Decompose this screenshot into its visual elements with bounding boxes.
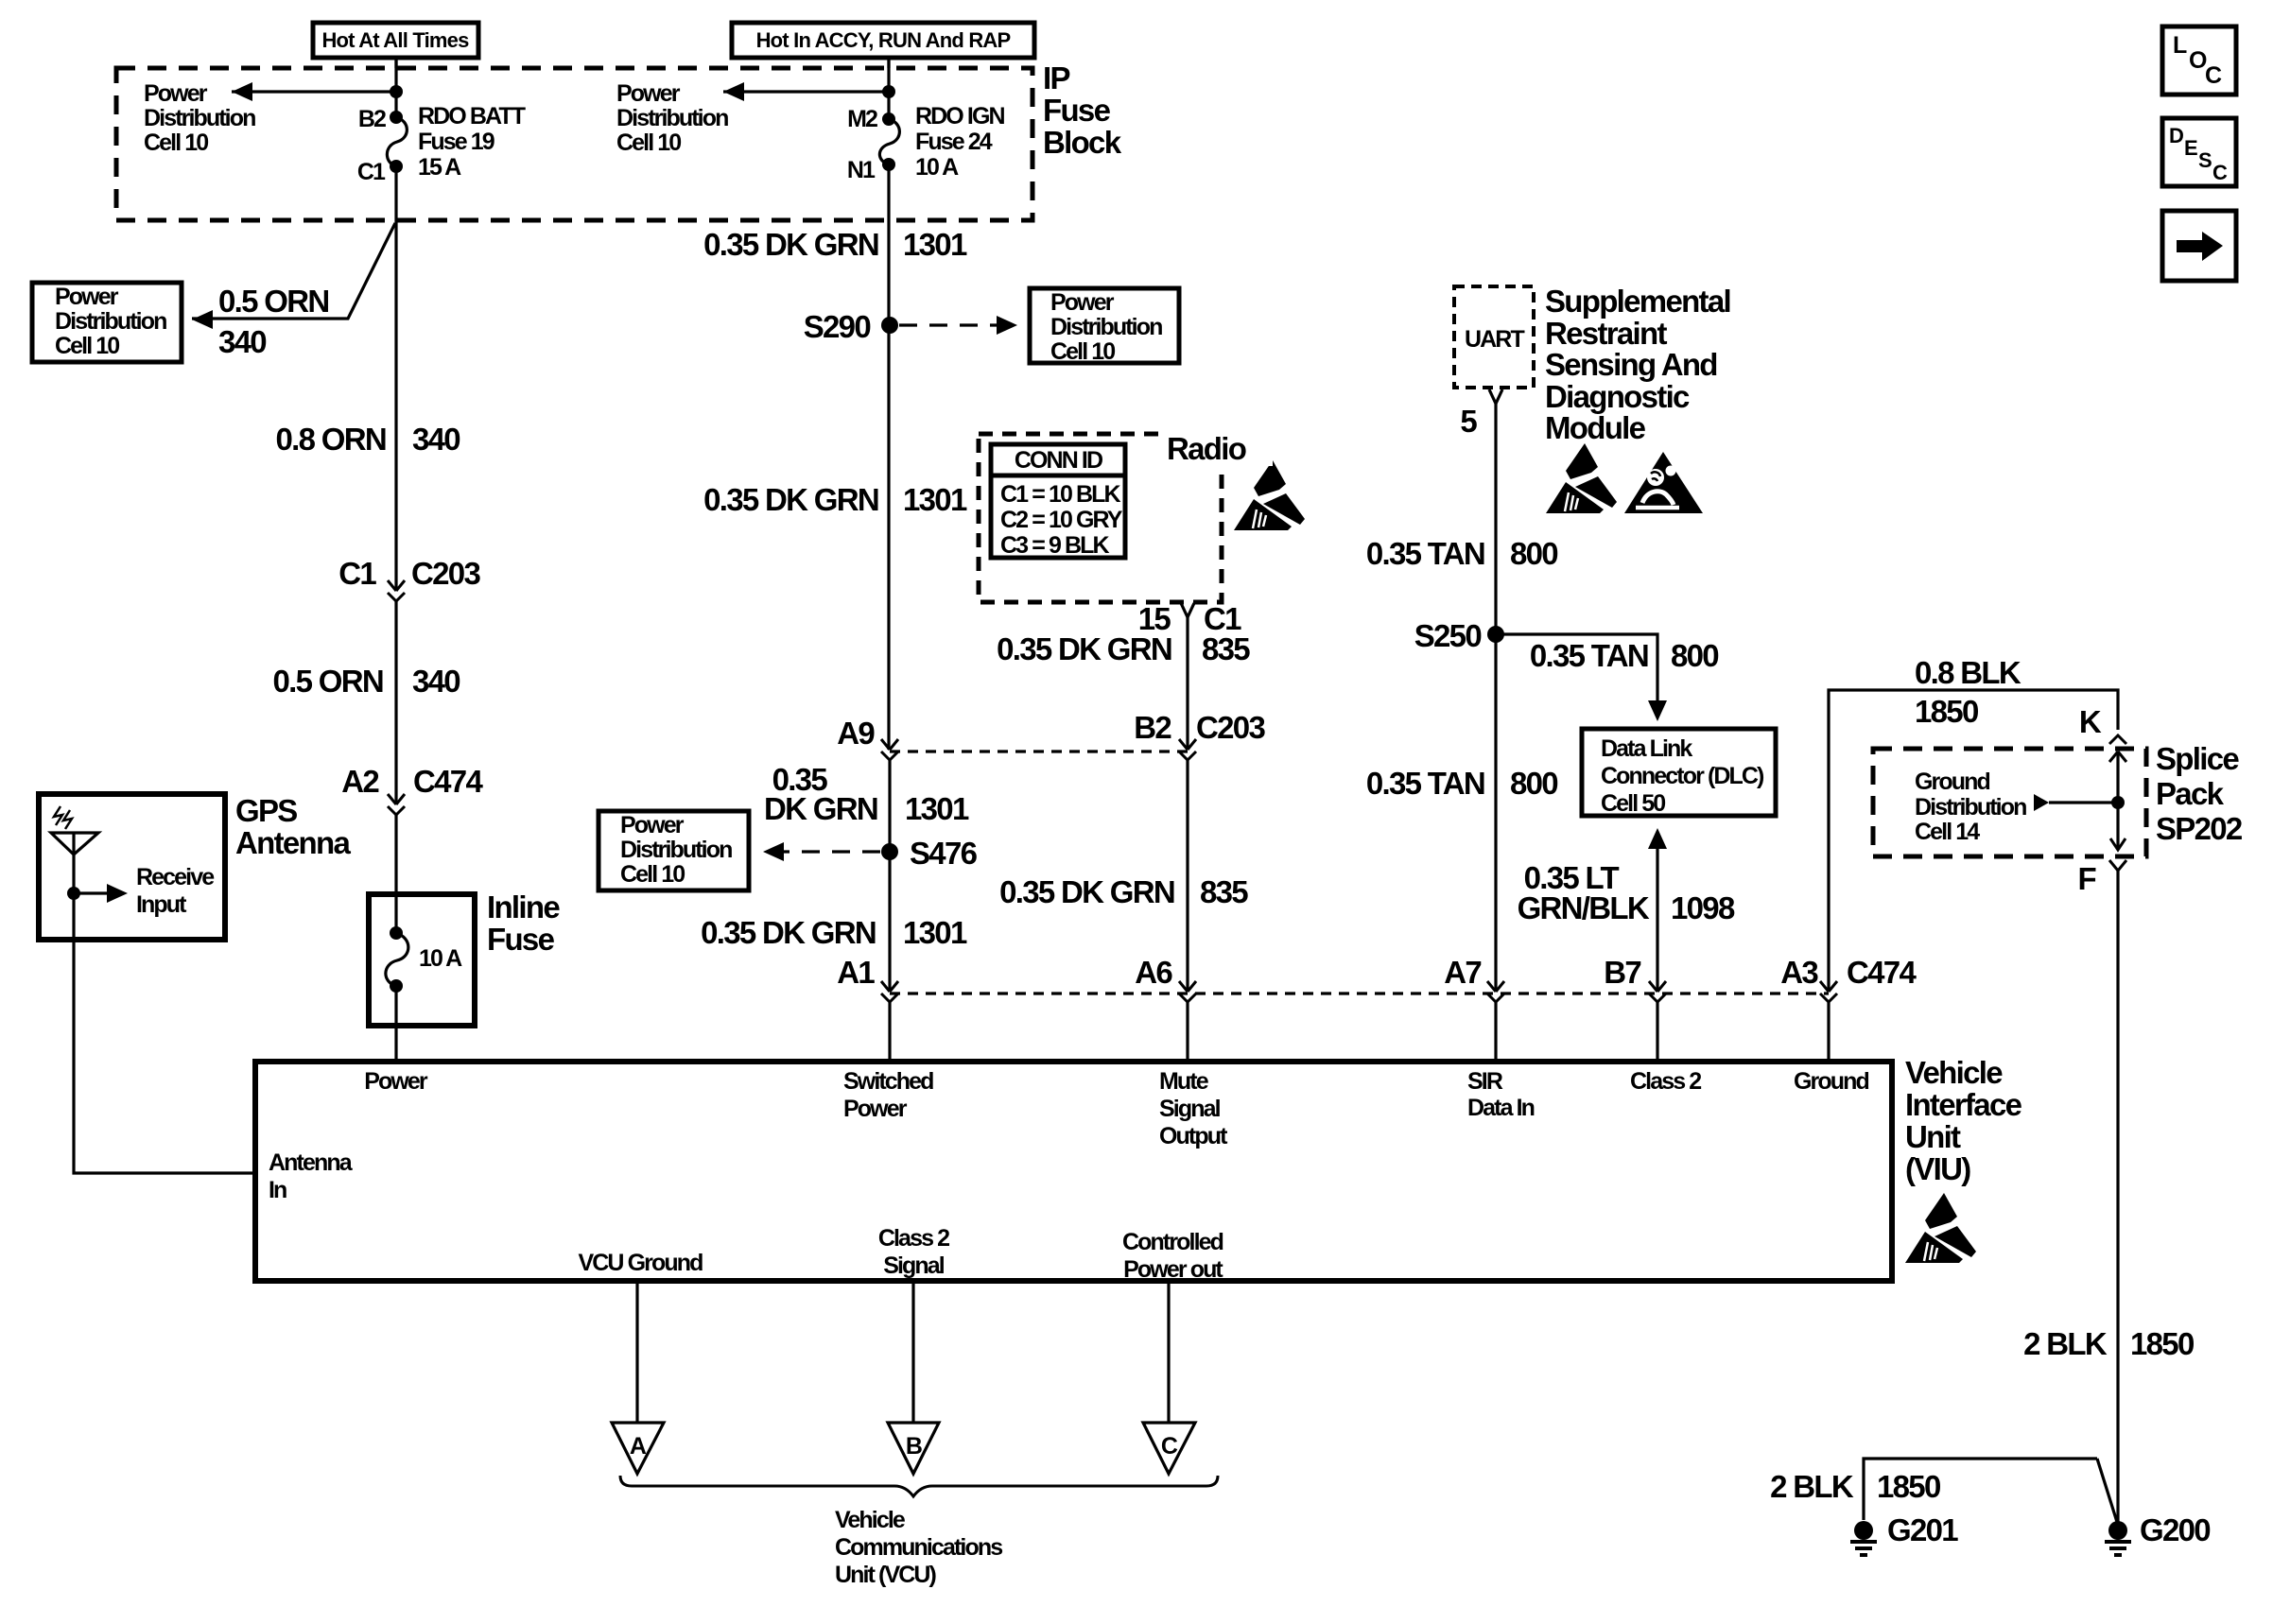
svg-text:S290: S290 bbox=[804, 309, 871, 344]
svg-text:Controlled: Controlled bbox=[1122, 1229, 1223, 1255]
svg-text:Interface: Interface bbox=[1905, 1087, 2022, 1122]
svg-text:340: 340 bbox=[412, 664, 460, 699]
svg-text:0.35 DK GRN: 0.35 DK GRN bbox=[997, 631, 1171, 666]
svg-text:Data In: Data In bbox=[1467, 1095, 1535, 1121]
svg-text:GRN/BLK: GRN/BLK bbox=[1518, 890, 1650, 925]
svg-text:835: 835 bbox=[1202, 631, 1250, 666]
svg-text:Power: Power bbox=[1050, 289, 1115, 316]
svg-text:0.35 TAN: 0.35 TAN bbox=[1366, 766, 1484, 801]
svg-text:C1: C1 bbox=[357, 159, 386, 185]
svg-text:D: D bbox=[2169, 124, 2183, 147]
svg-text:Antenna: Antenna bbox=[269, 1149, 354, 1176]
svg-text:S: S bbox=[2198, 148, 2212, 172]
svg-text:Antenna: Antenna bbox=[235, 825, 351, 860]
svg-text:(VIU): (VIU) bbox=[1905, 1151, 1970, 1186]
svg-text:C203: C203 bbox=[1196, 710, 1265, 745]
svg-text:IP: IP bbox=[1043, 60, 1069, 95]
svg-text:A: A bbox=[630, 1433, 647, 1460]
svg-text:B2: B2 bbox=[1134, 710, 1171, 745]
svg-text:1301: 1301 bbox=[905, 791, 969, 826]
svg-text:Block: Block bbox=[1043, 125, 1122, 160]
svg-text:Receive: Receive bbox=[136, 864, 215, 890]
svg-text:340: 340 bbox=[218, 324, 266, 359]
svg-text:Hot At All Times: Hot At All Times bbox=[321, 28, 469, 52]
svg-text:0.35 DK GRN: 0.35 DK GRN bbox=[703, 482, 878, 517]
svg-text:10 A: 10 A bbox=[915, 154, 959, 181]
svg-text:0.5 ORN: 0.5 ORN bbox=[218, 284, 328, 319]
svg-text:1098: 1098 bbox=[1671, 890, 1735, 925]
svg-text:Cell 14: Cell 14 bbox=[1915, 819, 1980, 845]
svg-text:C2 = 10 GRY: C2 = 10 GRY bbox=[1000, 507, 1123, 533]
svg-text:C1: C1 bbox=[338, 556, 376, 591]
svg-text:RDO BATT: RDO BATT bbox=[418, 103, 526, 130]
svg-text:C474: C474 bbox=[1847, 955, 1917, 990]
svg-text:DK GRN: DK GRN bbox=[764, 791, 877, 826]
svg-text:Communications: Communications bbox=[835, 1534, 1002, 1561]
svg-text:A9: A9 bbox=[837, 716, 875, 751]
svg-text:1301: 1301 bbox=[903, 482, 967, 517]
svg-text:Ground: Ground bbox=[1794, 1068, 1868, 1095]
svg-text:Cell 10: Cell 10 bbox=[620, 861, 685, 888]
svg-text:A6: A6 bbox=[1135, 955, 1172, 990]
svg-text:S476: S476 bbox=[910, 836, 978, 871]
svg-text:Mute: Mute bbox=[1159, 1068, 1209, 1095]
svg-text:0.35 DK GRN: 0.35 DK GRN bbox=[703, 227, 878, 262]
svg-text:E: E bbox=[2184, 136, 2197, 160]
svg-text:1301: 1301 bbox=[903, 915, 967, 950]
svg-text:1301: 1301 bbox=[903, 227, 967, 262]
svg-text:C: C bbox=[2212, 161, 2228, 184]
svg-text:Power: Power bbox=[55, 284, 119, 310]
svg-text:F: F bbox=[2078, 861, 2096, 896]
svg-text:L: L bbox=[2173, 32, 2187, 59]
svg-text:Module: Module bbox=[1545, 410, 1646, 445]
svg-text:A2: A2 bbox=[341, 764, 379, 799]
svg-text:Power: Power bbox=[620, 812, 685, 838]
svg-text:Restraint: Restraint bbox=[1545, 316, 1667, 351]
svg-text:Class 2: Class 2 bbox=[1630, 1068, 1701, 1095]
svg-text:Unit: Unit bbox=[1905, 1119, 1961, 1154]
svg-text:800: 800 bbox=[1510, 536, 1557, 571]
svg-text:Vehicle: Vehicle bbox=[1905, 1055, 2003, 1090]
svg-text:Signal: Signal bbox=[1159, 1096, 1221, 1122]
svg-text:Cell 50: Cell 50 bbox=[1601, 790, 1665, 817]
svg-text:1850: 1850 bbox=[2130, 1326, 2194, 1361]
svg-text:0.35 DK GRN: 0.35 DK GRN bbox=[701, 915, 876, 950]
svg-text:B: B bbox=[906, 1433, 922, 1460]
svg-text:B2: B2 bbox=[358, 106, 386, 132]
svg-text:Splice: Splice bbox=[2156, 741, 2239, 776]
svg-text:Pack: Pack bbox=[2156, 776, 2225, 811]
svg-text:Unit (VCU): Unit (VCU) bbox=[835, 1562, 937, 1588]
svg-text:Hot In ACCY, RUN And RAP: Hot In ACCY, RUN And RAP bbox=[756, 28, 1011, 52]
svg-text:1850: 1850 bbox=[1877, 1469, 1940, 1504]
svg-text:Distribution: Distribution bbox=[1915, 794, 2026, 821]
svg-text:Class 2: Class 2 bbox=[878, 1225, 949, 1252]
svg-text:G201: G201 bbox=[1887, 1512, 1958, 1547]
svg-text:Distribution: Distribution bbox=[616, 105, 728, 131]
svg-text:Fuse: Fuse bbox=[1043, 93, 1111, 128]
svg-text:K: K bbox=[2079, 704, 2102, 739]
svg-text:Power: Power bbox=[364, 1068, 428, 1095]
svg-text:Diagnostic: Diagnostic bbox=[1545, 379, 1690, 414]
svg-text:0.35 TAN: 0.35 TAN bbox=[1366, 536, 1484, 571]
svg-text:SP202: SP202 bbox=[2156, 811, 2243, 846]
svg-text:Radio: Radio bbox=[1167, 431, 1246, 466]
svg-text:0.8 ORN: 0.8 ORN bbox=[276, 422, 386, 457]
svg-text:Ground: Ground bbox=[1915, 769, 1989, 795]
svg-text:C203: C203 bbox=[411, 556, 480, 591]
svg-text:10 A: 10 A bbox=[419, 945, 462, 972]
svg-text:Sensing And: Sensing And bbox=[1545, 347, 1717, 382]
svg-text:Input: Input bbox=[136, 891, 187, 918]
svg-text:0.5 ORN: 0.5 ORN bbox=[273, 664, 383, 699]
svg-text:VCU Ground: VCU Ground bbox=[579, 1250, 703, 1276]
svg-text:Fuse 24: Fuse 24 bbox=[915, 129, 993, 155]
svg-text:UART: UART bbox=[1465, 326, 1524, 353]
svg-text:Cell 10: Cell 10 bbox=[616, 130, 681, 156]
svg-text:N1: N1 bbox=[847, 157, 876, 183]
svg-text:Cell 10: Cell 10 bbox=[1050, 338, 1115, 365]
svg-text:Cell 10: Cell 10 bbox=[55, 333, 119, 359]
svg-text:Distribution: Distribution bbox=[144, 105, 255, 131]
svg-text:RDO IGN: RDO IGN bbox=[915, 103, 1004, 130]
svg-text:C474: C474 bbox=[413, 764, 483, 799]
svg-text:15 A: 15 A bbox=[418, 154, 461, 181]
svg-text:1850: 1850 bbox=[1915, 694, 1978, 729]
svg-text:Power: Power bbox=[843, 1096, 908, 1122]
svg-text:0.35 DK GRN: 0.35 DK GRN bbox=[999, 874, 1174, 909]
svg-text:A7: A7 bbox=[1444, 955, 1481, 990]
svg-text:C: C bbox=[1161, 1433, 1178, 1460]
svg-text:S250: S250 bbox=[1414, 618, 1482, 653]
svg-text:Fuse 19: Fuse 19 bbox=[418, 129, 495, 155]
svg-text:340: 340 bbox=[412, 422, 460, 457]
svg-text:B7: B7 bbox=[1604, 955, 1640, 990]
svg-text:Distribution: Distribution bbox=[1050, 314, 1162, 340]
svg-text:GPS: GPS bbox=[235, 793, 297, 828]
svg-text:SIR: SIR bbox=[1467, 1068, 1503, 1095]
svg-text:Fuse: Fuse bbox=[487, 922, 555, 957]
svg-text:800: 800 bbox=[1510, 766, 1557, 801]
svg-text:Power: Power bbox=[144, 80, 208, 107]
svg-text:In: In bbox=[269, 1177, 286, 1203]
svg-text:Power out: Power out bbox=[1123, 1256, 1223, 1283]
svg-text:2 BLK: 2 BLK bbox=[2023, 1326, 2108, 1361]
svg-text:A1: A1 bbox=[837, 955, 875, 990]
svg-text:Output: Output bbox=[1159, 1123, 1228, 1149]
svg-text:Vehicle: Vehicle bbox=[835, 1507, 906, 1533]
svg-text:Distribution: Distribution bbox=[620, 837, 732, 863]
svg-text:835: 835 bbox=[1200, 874, 1248, 909]
svg-text:0.35 TAN: 0.35 TAN bbox=[1530, 638, 1648, 673]
svg-text:Signal: Signal bbox=[883, 1253, 945, 1279]
svg-text:5: 5 bbox=[1460, 404, 1477, 439]
svg-text:2 BLK: 2 BLK bbox=[1770, 1469, 1854, 1504]
svg-text:Switched: Switched bbox=[843, 1068, 933, 1095]
svg-text:Supplemental: Supplemental bbox=[1545, 284, 1730, 319]
svg-text:Connector (DLC): Connector (DLC) bbox=[1601, 763, 1764, 789]
svg-text:Power: Power bbox=[616, 80, 681, 107]
svg-text:Inline: Inline bbox=[487, 890, 560, 924]
svg-text:Cell 10: Cell 10 bbox=[144, 130, 208, 156]
svg-text:CONN ID: CONN ID bbox=[1015, 447, 1102, 474]
svg-text:Distribution: Distribution bbox=[55, 308, 166, 335]
svg-text:C1 = 10 BLK: C1 = 10 BLK bbox=[1000, 481, 1121, 508]
svg-text:Data Link: Data Link bbox=[1601, 735, 1692, 762]
svg-text:A3: A3 bbox=[1780, 955, 1818, 990]
svg-text:C: C bbox=[2205, 62, 2222, 89]
svg-text:0.8 BLK: 0.8 BLK bbox=[1915, 655, 2021, 690]
svg-text:G200: G200 bbox=[2140, 1512, 2210, 1547]
svg-text:800: 800 bbox=[1671, 638, 1718, 673]
svg-text:M2: M2 bbox=[847, 106, 877, 132]
svg-text:C3 = 9 BLK: C3 = 9 BLK bbox=[1000, 532, 1110, 559]
